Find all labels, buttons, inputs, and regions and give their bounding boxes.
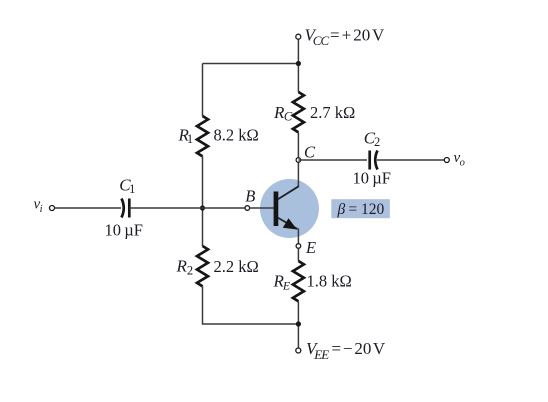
- node E circle: [296, 244, 301, 249]
- svg-text:CC: CC: [313, 33, 330, 48]
- wire: RE bottom to bottom junction and VEE: [297, 301, 299, 348]
- wire: RC bottom to collector diagonal: [297, 132, 299, 186]
- svg-text:8.2 kΩ: 8.2 kΩ: [214, 126, 259, 145]
- svg-text:2.7 kΩ: 2.7 kΩ: [310, 103, 355, 122]
- label VCC = +20 V: [305, 25, 386, 48]
- wire: C1 to node B: [129, 207, 245, 209]
- terminal VEE: [296, 348, 301, 353]
- svg-text:C: C: [304, 143, 316, 162]
- capacitor C1: [122, 199, 130, 218]
- resistor RC zigzag: [293, 92, 304, 132]
- svg-text:10 µF: 10 µF: [105, 221, 144, 240]
- svg-text:2.2 kΩ: 2.2 kΩ: [214, 257, 259, 276]
- wire: VCC terminal down to RC top: [297, 39, 299, 92]
- wire: vi to C1: [55, 207, 122, 209]
- beta box: [331, 199, 390, 218]
- svg-text:1.8 kΩ: 1.8 kΩ: [307, 272, 352, 291]
- wire: top horizontal from R1 rail to VCC rail: [203, 63, 299, 65]
- transistor Q1 emitter arrowhead: [283, 218, 297, 229]
- wire: C2 to vo terminal: [377, 159, 444, 161]
- svg-text:EE: EE: [313, 347, 329, 362]
- resistor R2 zigzag: [197, 246, 208, 286]
- junction: base wire and R1/R2 rail: [200, 205, 205, 210]
- capacitor C2: [370, 151, 378, 170]
- svg-text:β = 120: β = 120: [337, 201, 385, 218]
- wire: R2 bottom to bottom rail corner: [203, 286, 299, 324]
- transistor Q1 collector lead: [278, 186, 299, 199]
- junction: top at VCC rail: [296, 61, 301, 66]
- resistor R1 zigzag: [197, 116, 208, 156]
- wire: R1 rail vertical (top segment): [202, 64, 204, 117]
- wire: output horizontal from node C to C2: [298, 159, 367, 161]
- wire: R1 rail vertical (mid segment to base wire): [202, 156, 204, 246]
- node B circle: [245, 206, 250, 211]
- wire: emitter to node E: [297, 229, 299, 244]
- terminal vi: [50, 206, 55, 211]
- svg-text:10 µF: 10 µF: [353, 169, 392, 188]
- svg-text:= − 20 V: = − 20 V: [332, 339, 386, 358]
- label VEE = -20 V: [306, 339, 386, 362]
- junction: bottom rail: [296, 321, 301, 326]
- terminal VCC: [296, 34, 301, 39]
- svg-text:E: E: [305, 238, 316, 257]
- resistor RE zigzag: [293, 261, 304, 301]
- svg-text:B: B: [245, 187, 255, 206]
- wire: node B to transistor base: [250, 207, 274, 209]
- transistor Q1 circle highlight: [260, 179, 319, 238]
- svg-text:= + 20 V: = + 20 V: [330, 25, 385, 44]
- transistor Q1 base bar: [274, 192, 279, 227]
- node C circle: [296, 158, 301, 163]
- terminal vo: [444, 158, 449, 163]
- wire: node E to RE: [297, 248, 299, 261]
- transistor Q1 emitter lead: [278, 218, 298, 230]
